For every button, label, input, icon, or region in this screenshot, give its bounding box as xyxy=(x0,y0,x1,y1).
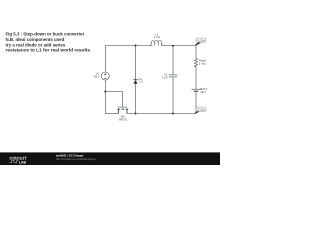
wire bottom rail right xyxy=(127,113,196,115)
svg-text:N.B. ideal components used: N.B. ideal components used xyxy=(6,37,65,42)
wire bottom rail left xyxy=(105,113,118,115)
svg-text:LAB: LAB xyxy=(19,161,27,165)
diode D1 xyxy=(133,80,137,84)
node junction dot bottom D1 xyxy=(135,113,137,115)
svg-text:CIRCUIT: CIRCUIT xyxy=(10,155,28,160)
transistor M1 xyxy=(117,107,128,113)
svg-text:0_Out: 0_Out xyxy=(197,108,205,112)
caption text xyxy=(6,32,91,53)
svg-text:resistance to L1 for real worl: resistance to L1 for real world results xyxy=(6,48,91,53)
svg-text:V_Out: V_Out xyxy=(197,38,205,42)
svg-text:http://circuitlab.com/c/w643ky: http://circuitlab.com/c/w643kyq/aqzvw xyxy=(56,157,97,161)
svg-text:try a real diode or add series: try a real diode or add series xyxy=(6,42,66,47)
node junction dot top D1 xyxy=(135,45,137,47)
node junction dot V1 gate tap xyxy=(104,91,106,93)
wire gate run xyxy=(105,92,122,107)
CircuitLab logo xyxy=(9,155,27,164)
wire left branch upper xyxy=(104,46,106,73)
node flag 0_Out xyxy=(195,107,206,114)
node junction dot top C1 xyxy=(172,45,174,47)
svg-text:Fig 5.3 : Step-down or buck co: Fig 5.3 : Step-down or buck convertor xyxy=(6,32,85,37)
wire cap branch xyxy=(172,46,174,75)
capacitor C1 xyxy=(169,75,177,77)
wire top rail left xyxy=(105,45,152,47)
svg-text:300 V: 300 V xyxy=(94,75,100,79)
svg-text:48 V: 48 V xyxy=(200,90,206,94)
wire right branch xyxy=(195,46,197,59)
wire top rail right xyxy=(162,45,196,47)
voltage source V1 xyxy=(101,72,109,80)
svg-text:1 V: 1 V xyxy=(139,80,143,84)
resistor Rbatt xyxy=(195,58,198,67)
node junction dot bottom C1 xyxy=(172,113,174,115)
svg-text:1 µF: 1 µF xyxy=(162,76,168,80)
wire left branch lower xyxy=(104,80,106,114)
footer bar xyxy=(0,152,220,165)
inductor L1 xyxy=(151,40,162,45)
svg-text:1 mH: 1 mH xyxy=(154,35,160,39)
wire diode branch xyxy=(135,46,137,80)
node flag V_Out xyxy=(195,38,206,46)
svg-text:NFET20: NFET20 xyxy=(119,118,128,122)
svg-text:1 mΩ: 1 mΩ xyxy=(199,62,206,66)
battery BAT1 xyxy=(192,89,201,91)
